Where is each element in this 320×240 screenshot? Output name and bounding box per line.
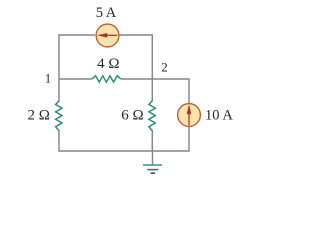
wire top segment right (5A source to top-right corner, down to node 2) <box>119 35 152 79</box>
svg-text:2 Ω: 2 Ω <box>27 108 49 124</box>
svg-text:4 Ω: 4 Ω <box>97 56 119 72</box>
svg-text:2: 2 <box>161 59 168 74</box>
current source 10A (right branch, arrow pointing up) <box>178 104 201 127</box>
wire node1 to 4ohm resistor <box>59 78 92 80</box>
wire node 2 to right branch top <box>152 79 189 104</box>
resistor 6 ohm (middle branch) <box>149 101 155 131</box>
svg-text:6 Ω: 6 Ω <box>121 108 143 124</box>
svg-text:1: 1 <box>45 71 52 86</box>
wire middle branch below 6ohm <box>151 130 153 151</box>
wire middle branch node2 to 6ohm <box>151 79 153 102</box>
resistor 4 ohm (between node 1 and node 2) <box>92 76 121 82</box>
svg-text:5 A: 5 A <box>96 5 117 21</box>
wire left branch below 2ohm <box>58 130 60 151</box>
wire 4ohm resistor to node 2 <box>121 78 152 80</box>
svg-text:10 A: 10 A <box>205 108 233 124</box>
resistor 2 ohm (left branch) <box>56 101 62 131</box>
current source 5A (top, arrow pointing left) <box>96 24 119 47</box>
ground <box>143 165 162 173</box>
wire left branch above 2ohm <box>58 79 60 102</box>
wire top segment left (top-left corner to 5A source) <box>59 35 95 79</box>
wire right branch below 10A source to bottom-right corner <box>59 127 189 151</box>
wire ground stem <box>152 151 154 165</box>
